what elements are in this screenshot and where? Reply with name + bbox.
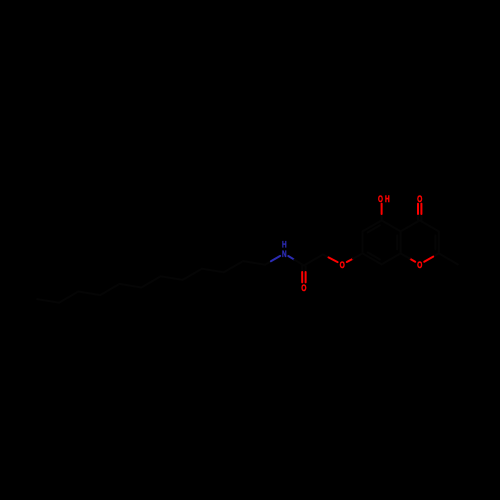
bond O ether-C7 (half red at O)	[347, 253, 363, 262]
chain bond C8-C7	[120, 284, 142, 288]
ring double bond C2=C3 inner line	[434, 235, 436, 249]
label OH (phenol hydroxyl)	[378, 194, 390, 205]
bond N-C amide (half blue at N)	[288, 256, 304, 266]
label O (ring oxygen O1)	[417, 260, 422, 271]
label O (amide carbonyl oxygen)	[301, 283, 306, 294]
svg-text:O: O	[417, 194, 422, 205]
chain bond C3-C2	[224, 261, 243, 272]
chain bond C10-C9	[78, 292, 100, 296]
chain bond C12-C11 (dodecyl tail)	[37, 299, 59, 303]
chain bond C2-C1	[243, 261, 265, 265]
label N (amide nitrogen)	[282, 249, 287, 260]
chain bond C5-C4	[183, 269, 202, 280]
bond CH2-O ether (half red at O)	[323, 255, 338, 263]
ring bond C2-O1 (half red at O)	[424, 253, 439, 261]
svg-text:H: H	[385, 194, 390, 205]
svg-text:O: O	[378, 194, 383, 205]
bond Camide-CH2	[304, 255, 323, 266]
bond C5-OH (half red at O)	[381, 204, 383, 221]
ring bond C4-C3	[420, 220, 439, 231]
svg-text:N: N	[282, 249, 287, 260]
ring bond C8a-C8	[382, 253, 401, 264]
bond C2-CH3 methyl	[439, 253, 458, 264]
ring bond C7-C6	[362, 231, 364, 253]
ring bond O1-C8a (half red at O)	[401, 253, 416, 261]
ring bond C5-C4a	[382, 220, 401, 231]
double bond C=O amide (red at O)	[302, 266, 305, 283]
svg-text:O: O	[417, 260, 422, 271]
ring double bond C5=C6 inner line	[368, 225, 380, 232]
bond C1-N (half blue at N)	[265, 256, 280, 265]
chain bond C9-C8	[100, 284, 119, 295]
ring double bond C7=C8 inner line	[368, 252, 380, 259]
chain bond C7-C6	[141, 276, 160, 287]
ring bond C6-C5	[363, 220, 382, 231]
double bond C4=O ketone (red at O)	[418, 204, 421, 221]
ring bond C4a-C8a fusion	[400, 231, 402, 253]
ring double bond C4a=C8a inner line	[396, 235, 398, 249]
label O (glycolic ether oxygen)	[340, 260, 345, 271]
label O (chromone 4-keto oxygen)	[417, 194, 422, 205]
chain bond C6-C5	[161, 276, 183, 280]
svg-text:O: O	[340, 260, 345, 271]
ring bond C3-C2	[438, 231, 440, 253]
svg-text:O: O	[301, 283, 306, 294]
ring bond C8-C7	[363, 253, 382, 264]
label H (amide N-H)	[282, 239, 287, 250]
chain bond C11-C10	[59, 292, 78, 303]
chain bond C4-C3	[202, 269, 224, 273]
ring bond C4a-C4	[401, 220, 420, 231]
